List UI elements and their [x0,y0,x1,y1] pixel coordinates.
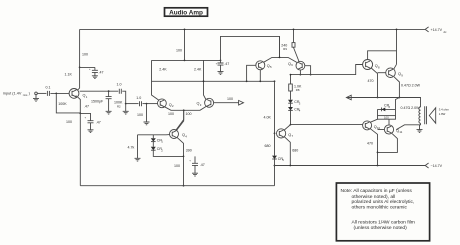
svg-text:1500pF: 1500pF [91,100,104,104]
transistor Q6 [288,61,305,70]
wire output rail [346,98,420,108]
node Q1 source junction [79,113,81,115]
wire to Q2 base [143,103,158,105]
svg-text:.47: .47 [200,163,205,167]
resistor 470 (Q8 emitter) [368,68,386,98]
transistor Q10 [363,121,381,130]
resistor 2.4K (Q3 collector) [194,60,206,99]
node V+ arrow [425,27,428,32]
resistor 1.1K (Q1 drain) [65,67,80,90]
wire ground rail [80,185,274,187]
node Q1 gate [55,93,57,95]
wire Q4 collector [177,110,184,130]
speaker [429,107,449,123]
node +14.7V label [431,28,448,34]
wire Q6 collector node [299,70,301,75]
svg-text:All resistors 1/4W carbon film: All resistors 1/4W carbon film [352,219,415,225]
wire Q11 collector [388,119,390,125]
wire Q11 emitter [378,134,398,153]
svg-text:100: 100 [137,113,143,117]
svg-text:100: 100 [174,164,180,168]
svg-text:0.47Ω 2.0W: 0.47Ω 2.0W [401,106,421,110]
capacitor .47 (Q4 bypass) [189,156,205,176]
resistor 390 (Q4 emitter) [177,138,192,158]
resistor 680 (Q7 emitter) [284,137,298,166]
resistor 4.7k [128,135,141,161]
wire Q7 collector [284,125,291,131]
wire Q5 collector [259,70,261,82]
node tail junction [183,109,185,111]
resistor 100 (to ground rail) [174,156,184,186]
note box [336,183,429,241]
wire Q5 base [247,65,256,81]
svg-text:input (1.4V: input (1.4V [3,91,22,95]
svg-text:+14.7V: +14.7V [431,28,443,32]
svg-text:100: 100 [168,112,174,116]
svg-text:100: 100 [82,53,88,57]
capacitor .47 (supply bypass) [80,67,104,79]
diode CR2 [151,142,184,157]
wire negative rail [274,165,426,167]
wire Q7 collector line to Q10 base [291,124,363,126]
ground (input) [33,95,39,102]
svg-text:Audio Amp: Audio Amp [169,9,203,16]
diode CR4 [288,103,301,124]
resistor 240 R9 [281,43,287,51]
svg-text:−14.7V: −14.7V [431,164,443,168]
resistor 100 (parallel) [370,98,399,123]
svg-text:4.0K: 4.0K [264,115,272,119]
svg-text:11: 11 [399,130,402,134]
transistor Q8 [363,60,380,70]
capacitor 1500pF [91,90,112,114]
transformer coil [419,106,427,124]
svg-text:rms: rms [23,93,28,97]
svg-text:1.0: 1.0 [136,96,141,100]
wire Q1 source down [78,97,80,113]
wire cap to Q1 gate [50,92,69,94]
svg-text:.47: .47 [224,62,229,66]
svg-text:(unless otherwise noted): (unless otherwise noted) [354,225,408,231]
capacitor 1.0 [117,82,122,93]
wire feedback stub (Q3 base) [214,97,244,105]
resistor 470 (Q10 emitter) [367,129,384,166]
svg-text:680: 680 [265,144,271,148]
wire node to cap [126,103,139,105]
capacitor 0.1 (input coupling) [46,85,51,96]
wire to node [122,91,125,103]
transistor Q1 [69,89,88,99]
svg-text:680: 680 [292,148,298,152]
node divider junction [125,103,127,105]
svg-text:.47: .47 [99,71,104,75]
resistor 100K (gate) [56,93,80,113]
capacitor .47 (source bypass) [80,105,101,133]
node Q7 collector junction [290,124,292,126]
svg-text:1.8W: 1.8W [439,112,446,116]
svg-text:others monolithic ceramic: others monolithic ceramic [352,204,408,210]
resistor 0.47 2.0W (Q9 emitter) [394,77,421,99]
transistor Q9 [386,68,404,78]
wire diff emitters [164,106,206,110]
wire Q4 base [138,134,170,136]
svg-text:100K: 100K [58,102,67,106]
wire first to second stage [152,80,275,82]
diode CR3 [288,100,301,106]
capacitor 1.0 (to Q2) [136,96,141,106]
svg-text:4.7k: 4.7k [128,146,135,150]
wire bootstrap to 240 [221,36,280,60]
svg-text:100: 100 [384,116,389,120]
capacitor .47 (decoupled node) [216,60,230,75]
svg-text:0.47Ω 2.0W: 0.47Ω 2.0W [401,84,421,88]
wire Q6 base [305,66,311,75]
svg-text:100: 100 [66,120,72,124]
svg-text:390: 390 [186,148,192,152]
svg-text:100: 100 [186,112,192,116]
transistor Q5 [256,61,272,70]
node common emitter junction [279,57,281,59]
node negative rail junctions [377,165,379,167]
svg-text:1.0: 1.0 [117,82,122,86]
transistor Q7 [274,129,294,138]
transistor Q11 [384,125,402,134]
transistor Q2 [158,99,175,108]
wire Q8/Q9 collectors to rail [368,29,397,69]
svg-text:1.1K: 1.1K [65,73,73,77]
svg-text:100: 100 [176,49,182,53]
wire tail down to Q4 [176,110,184,130]
node Q6 base junction [310,74,312,76]
node input label [3,91,31,97]
svg-text:3.4 ohm: 3.4 ohm [439,107,450,111]
wire V+ top rail [80,28,426,30]
resistor (Q6 collector to rail) [292,29,299,62]
svg-text:.47: .47 [96,120,101,124]
node Q2 base junction [146,103,148,105]
svg-text:R9: R9 [283,47,287,51]
svg-text:2.4K: 2.4K [159,68,167,72]
svg-text:.47: .47 [84,105,89,109]
svg-text:otherwise noted), all: otherwise noted), all [352,194,396,200]
svg-text:R2: R2 [117,105,121,109]
resistor 2.4K (Q2 collector) [152,60,168,100]
wire input to cap [37,92,46,94]
resistor 680 (below Q7 base) [265,133,275,155]
node input connector [35,92,38,95]
svg-text:R8: R8 [296,88,300,92]
resistor 100K (Q2 base) [137,104,150,125]
node decoupled supply junction [184,60,186,62]
resistor 100K R2 [114,100,129,114]
transistor Q4 [170,130,188,139]
svg-text:polarized units Al electrolyti: polarized units Al electrolytic, [352,199,415,205]
wire collector sub-rail [152,59,221,61]
wire coil bottom to Q11 [396,123,420,129]
resistor 100 (decoupling) [176,29,185,61]
diode CR5 [272,156,284,186]
svg-text:0.1: 0.1 [46,85,51,89]
svg-text:470: 470 [368,79,374,83]
wire VAS node to output bases [291,65,363,75]
svg-text:100: 100 [227,97,233,101]
resistor 100 (Q1 supply) [79,29,88,68]
resistor 4.0K (to Q7 base) [264,81,275,133]
wire common emitters [264,36,298,62]
resistor 1.0K R8 [289,74,302,100]
svg-text:Note: All capacitors in µF (un: Note: All capacitors in µF (unless [341,188,413,194]
diode CR1 [151,135,164,144]
resistor 100 (source) [66,113,80,185]
transistor Q3 [197,98,214,107]
svg-text:470: 470 [367,141,373,145]
ground (speaker) [417,125,423,133]
wire Q1 drain out [80,90,119,92]
title box [165,8,208,16]
node interstage junctions [203,80,205,82]
diode CR6 [378,104,396,112]
svg-text:2.4K: 2.4K [194,68,202,72]
